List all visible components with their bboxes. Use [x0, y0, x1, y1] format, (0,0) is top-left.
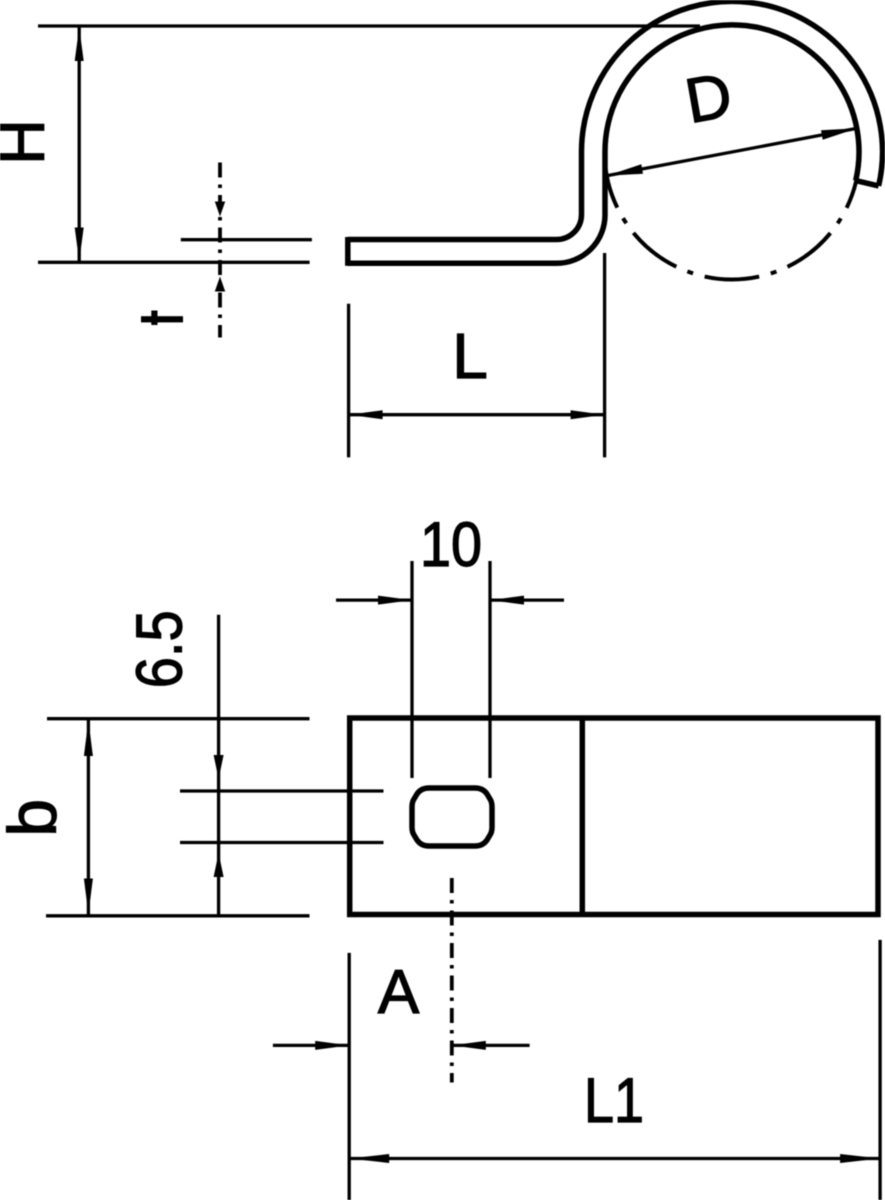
slot center line (dash-dot, A) [450, 878, 454, 1083]
dimension H line [78, 26, 81, 262]
extension line L1 right [878, 940, 881, 1200]
dimension 6.5 line [217, 615, 220, 917]
bend line in plan [580, 718, 586, 915]
dimension 10 line right tail [490, 598, 564, 601]
pipe center circle (dash-dot) [605, 25, 860, 280]
L1 arrow right [840, 1154, 880, 1163]
extension line 10 right [488, 561, 491, 778]
svg-text:b: b [0, 799, 71, 837]
dimension A line left tail [273, 1044, 349, 1047]
label t [141, 311, 183, 326]
svg-text:H: H [0, 119, 58, 165]
10 arrow right-pointing [378, 596, 412, 605]
extension line slot top (6.5) [180, 789, 384, 792]
extension line b bottom [46, 914, 310, 917]
slot (obround hole) [412, 788, 492, 846]
A arrow left-pointing [452, 1041, 486, 1050]
extension line b top [47, 717, 310, 720]
L arrow left [349, 410, 383, 419]
dimension H arrow up [75, 27, 84, 61]
10 arrow left-pointing [490, 596, 524, 605]
dimension L1 line [349, 1157, 880, 1160]
extension line t upper [181, 238, 312, 241]
L arrow right [571, 410, 605, 419]
t arrow up [215, 277, 225, 292]
plan rectangle [350, 718, 878, 915]
extension line L right [603, 253, 606, 457]
6.5 arrow down [214, 755, 224, 779]
b arrow up [84, 721, 93, 757]
L1 arrow left [349, 1154, 389, 1163]
dimension H arrow down [75, 228, 84, 262]
clip strip outline: top edge [348, 152, 582, 240]
svg-text:L1: L1 [584, 1066, 644, 1136]
dimension D line [607, 128, 858, 175]
b arrow down [84, 879, 93, 915]
svg-text:6.5: 6.5 [123, 610, 196, 688]
band end cut [856, 181, 879, 186]
D arrow upper-right [821, 128, 857, 139]
clip strip outline: bottom edge [348, 152, 605, 263]
A arrow right-pointing [315, 1041, 349, 1050]
extension line A/L1 left [348, 953, 351, 1200]
dimension A line right tail [452, 1044, 530, 1047]
t arrow down [215, 202, 225, 217]
extension line bottom (base line) [38, 261, 310, 264]
clip strip left end cap [345, 237, 351, 266]
band inner arc [605, 25, 859, 181]
extension line L left [347, 304, 350, 458]
6.5 arrow up [214, 853, 224, 877]
dimension 10 line left tail [336, 598, 412, 601]
extension line top (tangent to pipe top) [38, 24, 700, 27]
center line t (dash-dot vertical) [218, 163, 222, 338]
extension line 10 left [410, 561, 413, 778]
svg-text:10: 10 [420, 510, 482, 580]
svg-text:L: L [452, 320, 488, 392]
dimension b line [87, 719, 90, 915]
band outer arc [581, 1, 882, 186]
D arrow lower-left [607, 164, 643, 175]
extension line slot bottom (6.5) [180, 841, 384, 844]
dimension L line [349, 413, 605, 416]
svg-text:A: A [378, 958, 420, 1027]
